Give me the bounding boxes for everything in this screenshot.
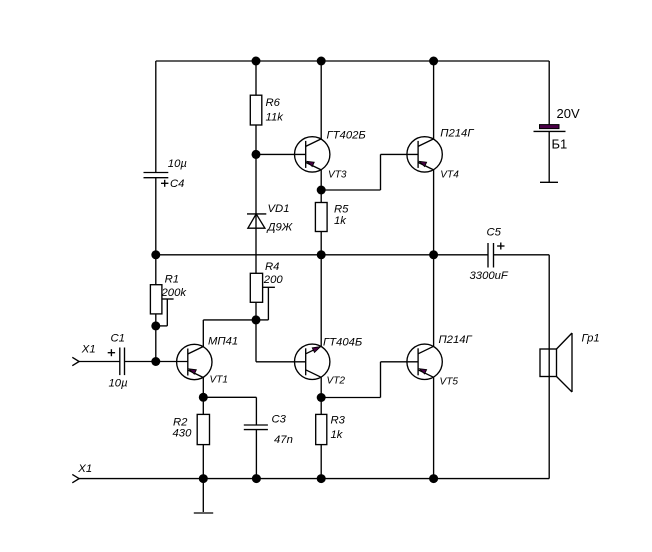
label R3 value 1k	[331, 429, 344, 441]
wire left column (R1 node to input node)	[155, 326, 157, 362]
wire VT3 collector	[320, 61, 322, 139]
label C4	[170, 178, 184, 190]
label C4 plus	[161, 180, 168, 187]
label C5	[487, 227, 502, 239]
label Б1	[552, 137, 568, 152]
wire VT4 emitter to mid rail	[433, 170, 435, 255]
svg-text:C3: C3	[272, 414, 287, 426]
wire VT3 base	[256, 153, 306, 155]
node VT1 emitter junction	[199, 393, 208, 402]
svg-text:10µ: 10µ	[168, 158, 188, 170]
node R1 bottom junction	[151, 321, 160, 330]
capacitor C1	[120, 348, 125, 376]
wire VT1 emitter node to C3	[203, 397, 256, 425]
wire VT2 collector node to R3	[320, 398, 322, 415]
wire VT3 emitter node to R5	[320, 190, 322, 203]
label R2 value 430	[173, 428, 193, 440]
wire R6 to VT3 base node	[255, 125, 257, 154]
svg-text:VD1: VD1	[268, 203, 290, 215]
label battery voltage 20V	[557, 106, 580, 121]
svg-text:20V: 20V	[557, 106, 580, 121]
ground symbol	[194, 479, 213, 513]
label VD1	[268, 203, 290, 215]
battery Б1 negative plate	[534, 130, 566, 132]
svg-text:C5: C5	[487, 227, 502, 239]
wire mid output rail	[156, 254, 488, 256]
wire right column (C5 to speaker)	[548, 255, 550, 349]
svg-text:R6: R6	[266, 97, 281, 109]
wire left column upper (top rail to C4)	[155, 61, 157, 173]
label VT5 type П214Г	[439, 334, 473, 346]
resistor R4	[250, 273, 262, 302]
svg-text:VT5: VT5	[440, 377, 459, 388]
wire R5 to mid rail	[320, 232, 322, 255]
label C3	[272, 414, 287, 426]
label VT4	[440, 170, 459, 181]
svg-text:VT4: VT4	[440, 170, 459, 181]
wire top supply rail	[156, 60, 549, 62]
wire VT3 base node to VD1	[255, 154, 257, 214]
label R6 value 11k	[266, 112, 285, 124]
resistor R3	[316, 414, 327, 444]
svg-text:VT2: VT2	[327, 376, 346, 387]
svg-text:R4: R4	[265, 261, 279, 273]
node VT5 / bottom rail junction	[429, 474, 438, 483]
svg-text:ГТ402Б: ГТ402Б	[327, 130, 366, 142]
transistor VT3	[295, 137, 330, 172]
label R6	[266, 97, 281, 109]
wire VT2 emitter (mid rail down)	[320, 255, 322, 346]
label X1 (bottom)	[77, 463, 92, 475]
battery Б1 positive plate	[540, 125, 560, 129]
label VT1 type МП41	[208, 336, 238, 348]
wire battery negative lead	[548, 131, 550, 182]
node R4 bottom / VT1 collector junction	[252, 315, 261, 324]
wire VT3 emitter to VT4 base	[321, 154, 418, 190]
wire R2 to bottom rail	[202, 445, 204, 479]
svg-text:430: 430	[173, 428, 193, 440]
label C1 plus	[108, 349, 115, 356]
wire VT2 collector to VT5 base	[321, 362, 418, 398]
node top rail / VT4 column junction	[429, 57, 438, 66]
node mid rail / VT4 junction	[429, 250, 438, 259]
svg-text:VT3: VT3	[328, 170, 347, 181]
resistor R6	[250, 95, 261, 125]
capacitor C5	[488, 243, 494, 268]
node mid rail / left column junction	[151, 250, 160, 259]
transistor VT4	[407, 137, 442, 172]
svg-text:1k: 1k	[334, 215, 347, 227]
label C1 value 10µ	[109, 378, 129, 390]
wire R4 bottom lead	[255, 302, 257, 320]
label R5 value 1k	[334, 215, 347, 227]
wire C5 to right column	[494, 254, 550, 256]
label Гр1	[582, 332, 600, 344]
label VT2 type ГТ404Б	[323, 337, 362, 349]
node top rail / VT3 column junction	[317, 57, 326, 66]
wire left column (mid rail to R1)	[155, 255, 157, 285]
wire R3 to bottom rail	[320, 445, 322, 479]
wire VT3 emitter	[320, 170, 322, 190]
svg-text:R1: R1	[165, 274, 179, 286]
node VT3 emitter junction	[317, 186, 326, 195]
wire VT1 collector up	[203, 320, 256, 347]
wire top rail to R6	[255, 61, 257, 95]
wire C3 to bottom rail	[255, 430, 257, 479]
node input / VT1 base junction	[151, 357, 160, 366]
label VT3 type ГТ402Б	[327, 130, 366, 142]
label R1 value 200k	[161, 287, 188, 299]
wire R4 wiper tap	[256, 287, 275, 320]
label VT1	[210, 375, 229, 386]
label R2	[173, 417, 188, 429]
svg-text:Д9Ж: Д9Ж	[266, 222, 293, 234]
transistor VT2	[295, 344, 330, 379]
terminal X1 input (bottom)	[72, 474, 79, 482]
capacitor C3	[244, 425, 268, 430]
wire VT4 collector	[433, 61, 435, 139]
label C4 value 10µ	[168, 158, 188, 170]
wire bottom ground rail	[79, 478, 550, 480]
svg-text:Б1: Б1	[552, 137, 568, 152]
svg-text:C1: C1	[111, 333, 125, 345]
svg-text:200k: 200k	[161, 287, 188, 299]
svg-text:П214Г: П214Г	[439, 334, 473, 346]
svg-text:200: 200	[263, 274, 284, 286]
label R3	[331, 415, 346, 427]
wire left column (C4 to mid rail)	[155, 178, 157, 255]
node VT2 collector junction	[317, 393, 326, 402]
svg-text:ГТ404Б: ГТ404Б	[323, 337, 362, 349]
label R4	[265, 261, 279, 273]
capacitor C4	[144, 173, 169, 178]
label X1 (top)	[81, 344, 96, 356]
svg-text:3300uF: 3300uF	[470, 270, 509, 282]
battery negative terminal bar	[540, 181, 558, 183]
transistor VT1	[177, 344, 212, 379]
speaker Гр1	[540, 333, 572, 392]
label C3 value 47n	[274, 434, 293, 446]
resistor R1	[150, 285, 162, 314]
wire VT5 emitter to bottom rail	[433, 377, 435, 478]
label C1	[111, 333, 125, 345]
resistor R2	[197, 414, 209, 444]
wire VT5 collector (mid rail down)	[433, 255, 435, 346]
wire VT1 emitter node to R2	[202, 397, 204, 414]
node mid rail / VT2 emitter junction	[317, 250, 326, 259]
svg-text:Гр1: Гр1	[582, 332, 600, 344]
svg-text:C4: C4	[170, 178, 184, 190]
node VT3 base junction	[252, 150, 261, 159]
svg-text:П214Г: П214Г	[440, 128, 474, 140]
wire input to C1	[79, 361, 120, 363]
label R1	[165, 274, 179, 286]
wire R1 bottom lead	[155, 314, 157, 326]
svg-text:X1: X1	[81, 344, 96, 356]
svg-text:R3: R3	[331, 415, 346, 427]
label VT3	[328, 170, 347, 181]
diode VD1	[247, 214, 266, 228]
label VT4 type П214Г	[440, 128, 474, 140]
wire right column through speaker to bottom rail	[548, 349, 550, 479]
resistor R5	[315, 203, 327, 232]
svg-text:11k: 11k	[266, 112, 285, 124]
node top rail / R6 column junction	[252, 57, 261, 66]
svg-text:МП41: МП41	[208, 336, 238, 348]
svg-text:VT1: VT1	[210, 375, 229, 386]
wire VT1 emitter down	[202, 377, 204, 397]
svg-text:10µ: 10µ	[109, 378, 129, 390]
label R5	[334, 204, 349, 216]
svg-text:R5: R5	[334, 204, 349, 216]
node C3 / bottom rail junction	[252, 474, 261, 483]
terminal X1 input (top)	[72, 357, 79, 365]
wire VT2 collector	[320, 377, 322, 397]
label C5 plus	[497, 243, 504, 250]
svg-text:X1: X1	[77, 463, 92, 475]
node R3 / bottom rail junction	[317, 474, 326, 483]
label VT2	[327, 376, 346, 387]
label VT5	[440, 377, 459, 388]
label C5 value 3300uF	[470, 270, 509, 282]
node R2 / bottom rail junction	[199, 474, 208, 483]
wire top rail to battery	[548, 61, 550, 125]
label VD1 type Д9Ж	[266, 222, 293, 234]
label R4 value 200	[263, 274, 284, 286]
transistor VT5	[407, 344, 442, 379]
wire VD1 to R4 (crosses mid rail)	[255, 214, 257, 273]
svg-text:47n: 47n	[274, 434, 293, 446]
wire R4 node to VT2 base	[256, 320, 306, 362]
svg-text:1k: 1k	[331, 429, 344, 441]
wire R1 wiper tap	[156, 299, 174, 326]
wire C1 to VT1 base	[125, 361, 188, 363]
